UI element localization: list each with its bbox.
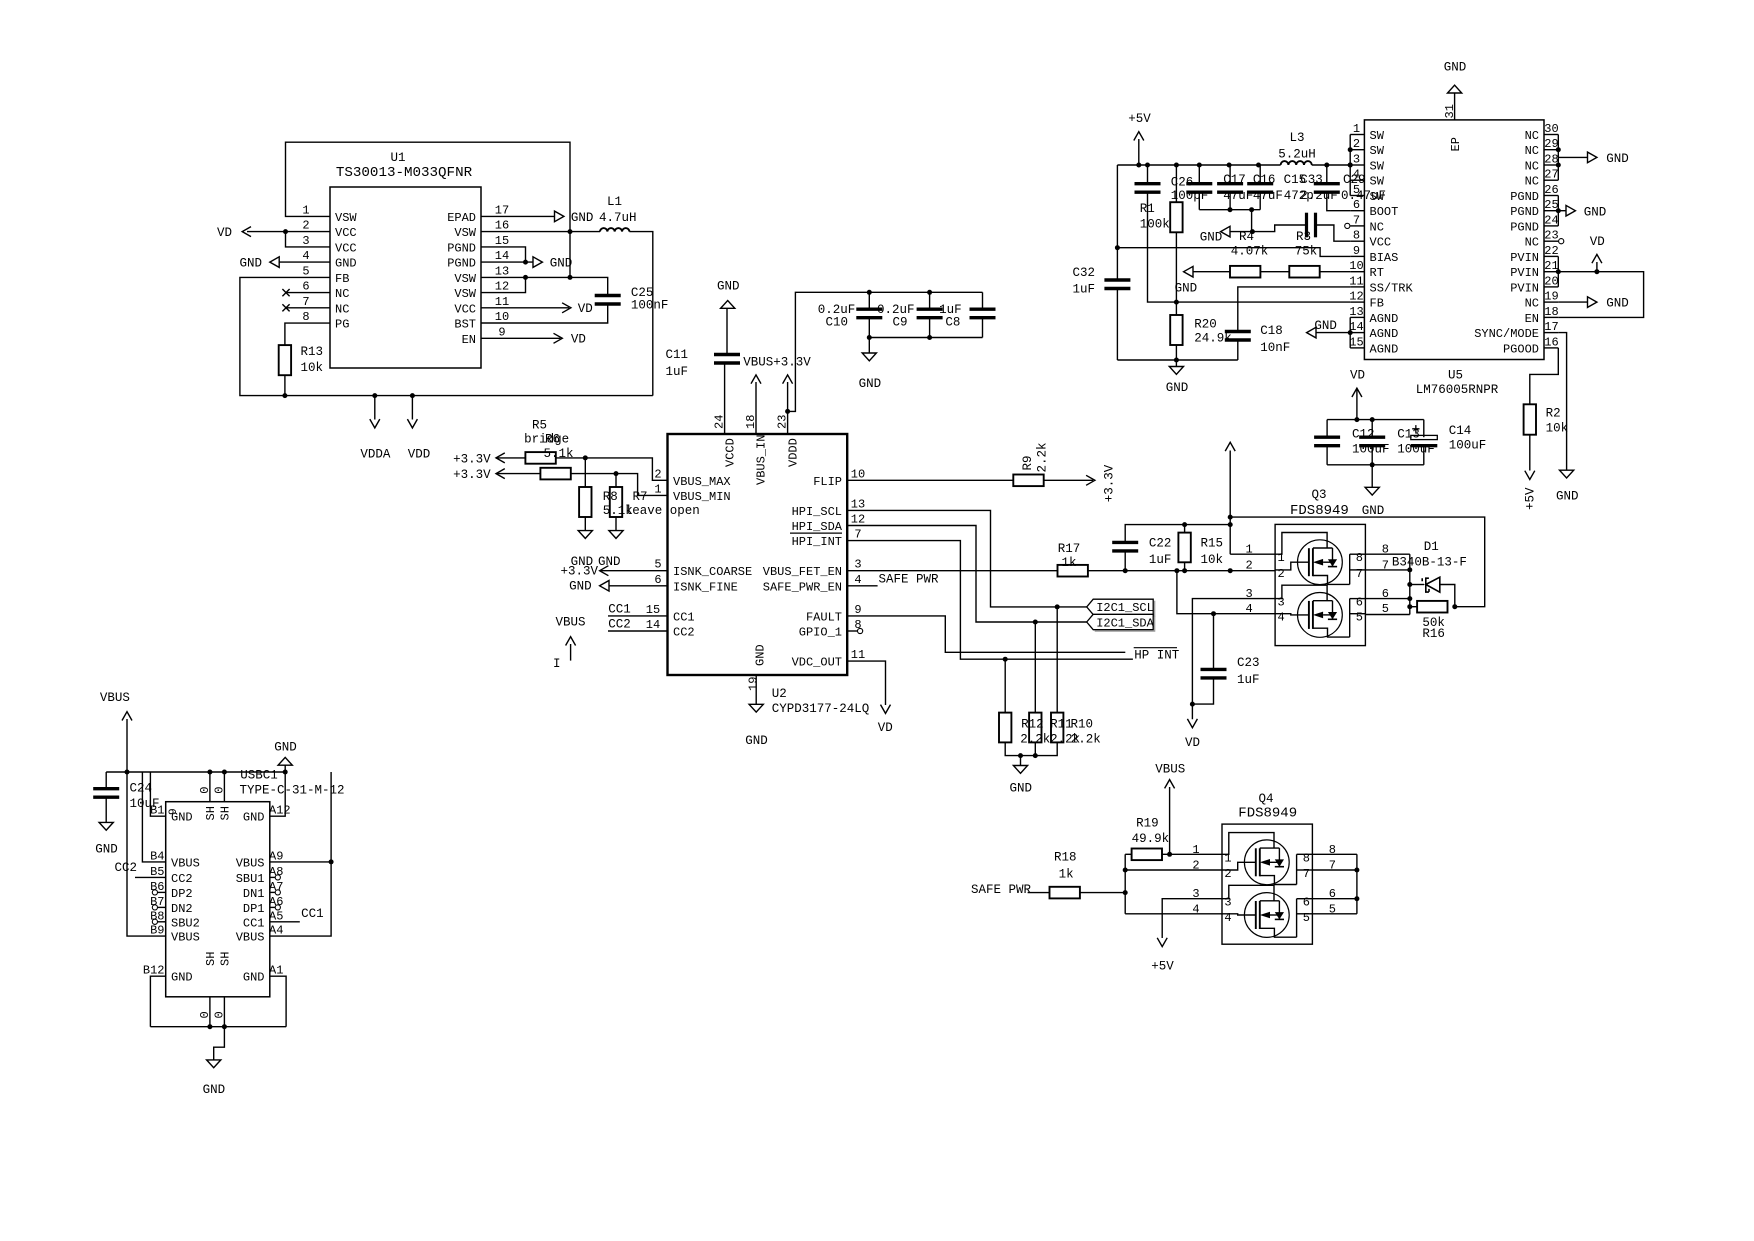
wire U5 pin 28 stub	[1544, 164, 1558, 166]
wire R15 bottom	[1184, 562, 1186, 570]
wire A12 gnd riser	[270, 772, 285, 816]
capacitor C10	[856, 308, 882, 311]
wire A to R16 loop	[1230, 517, 1485, 607]
wire U1 pin5 FB	[240, 277, 653, 395]
junction	[583, 455, 588, 460]
HP INT overline	[1134, 647, 1177, 649]
wire drain vert fet1	[1296, 854, 1298, 884]
wire R12 vert	[1004, 659, 1006, 712]
svg-text:GND: GND	[1444, 60, 1467, 74]
wire q3 vert up	[1229, 451, 1231, 555]
junction	[283, 229, 288, 234]
junction	[523, 260, 528, 265]
power arrow VBUS_IN	[751, 375, 761, 384]
svg-text:SW: SW	[1370, 129, 1385, 143]
wire B6 stub	[158, 891, 166, 893]
wire U1 pin15 PGND	[481, 247, 526, 262]
wire C12 top	[1326, 420, 1328, 438]
svg-text:R1: R1	[1140, 202, 1155, 216]
resistor R1	[1170, 202, 1182, 232]
wire U5 pin 3 stub	[1350, 164, 1364, 166]
svg-text:R3: R3	[1296, 230, 1311, 244]
wire R9 to +3.3V	[1044, 479, 1093, 481]
svg-text:U1: U1	[390, 151, 405, 165]
wire top tap fet1	[1260, 847, 1280, 849]
wire source route fet2	[1275, 585, 1327, 601]
svg-text:5: 5	[654, 558, 661, 572]
wire U5 pin 24 stub	[1544, 225, 1558, 227]
wire U5 pin 19 stub	[1544, 301, 1558, 303]
wire C32 bottom	[1116, 289, 1118, 361]
svg-text:GND: GND	[754, 644, 768, 666]
wire q3 pin1 entry	[1230, 553, 1275, 555]
svg-text:GND: GND	[550, 257, 573, 271]
junction	[1407, 604, 1412, 609]
svg-text:VD: VD	[878, 721, 893, 735]
wire U5 pin 29 stub	[1544, 149, 1558, 151]
wire VDD stub	[411, 396, 413, 420]
svg-text:9: 9	[854, 603, 861, 617]
ic U2 body	[668, 434, 848, 675]
wire SAFE_PWR_EN	[847, 585, 877, 587]
wire C16 bottom	[1229, 192, 1231, 210]
wire HPI_INT	[847, 541, 1133, 660]
svg-text:VBUS+3.3V: VBUS+3.3V	[743, 355, 811, 369]
wire B4 vbus riser	[142, 772, 165, 862]
wire C9 top	[929, 292, 931, 309]
svg-text:SH: SH	[219, 806, 233, 820]
wire B7 stub	[158, 906, 166, 908]
wire c12 gnd stub	[1371, 465, 1373, 488]
junction	[1003, 657, 1008, 662]
junction	[1018, 753, 1023, 758]
mosfet circle fet1	[1298, 540, 1343, 585]
wire q3 pin5	[1365, 614, 1409, 616]
wire q4 right vert	[1356, 854, 1358, 914]
wire R18 to node	[1080, 892, 1125, 894]
svg-text:SW: SW	[1370, 160, 1385, 174]
svg-text:16: 16	[495, 219, 509, 233]
wire +3.3V to R6	[496, 473, 540, 475]
resistor R17	[1058, 565, 1088, 577]
wire source exit fet2	[1313, 628, 1350, 637]
wire R7 bottom	[615, 517, 617, 531]
svg-text:1k: 1k	[1061, 556, 1076, 570]
svg-text:SW: SW	[1370, 144, 1385, 158]
svg-text:R19: R19	[1136, 817, 1159, 831]
mosfet gate bar fet1	[1255, 848, 1257, 876]
wire c12 top rail	[1327, 419, 1424, 421]
wire q3 pin3 to VD	[1192, 599, 1275, 720]
svg-text:5.2uH: 5.2uH	[1278, 148, 1316, 162]
svg-text:GND: GND	[598, 555, 621, 569]
svg-text:10nF: 10nF	[1260, 341, 1290, 355]
svg-text:C8: C8	[945, 316, 960, 330]
wire U5 pin 8 stub	[1350, 240, 1364, 242]
svg-text:1uF: 1uF	[1149, 553, 1172, 567]
wire q3 pin6	[1365, 598, 1409, 600]
svg-text:VBUS: VBUS	[556, 615, 586, 629]
svg-text:VSW: VSW	[335, 211, 357, 225]
capacitor C32	[1104, 278, 1130, 281]
svg-text:R5: R5	[532, 419, 547, 433]
wire C23 bottom	[1192, 678, 1213, 704]
svg-text:11: 11	[495, 295, 509, 309]
svg-text:5: 5	[302, 264, 309, 278]
wire R1 bottom	[1175, 232, 1177, 315]
wire RT gnd to R4	[1193, 271, 1230, 273]
wire R17 to C22 node	[1088, 570, 1275, 572]
wire U5 pin 7 stub	[1350, 225, 1364, 227]
svg-text:AGND: AGND	[1370, 312, 1399, 326]
wire +5V arrow stub	[1138, 139, 1140, 165]
svg-text:1: 1	[1277, 551, 1284, 565]
svg-text:14: 14	[495, 249, 509, 263]
wire U5 pin 14 stub	[1350, 332, 1364, 334]
svg-text:+5V: +5V	[1128, 112, 1151, 126]
no-connect GPIO_1	[858, 628, 863, 633]
svg-text:VBUS: VBUS	[236, 931, 265, 945]
svg-text:AGND: AGND	[1370, 327, 1399, 341]
svg-text:VD: VD	[571, 332, 586, 346]
junction	[1452, 604, 1457, 609]
svg-text:9: 9	[168, 808, 180, 815]
wire L1 right to loop	[629, 232, 652, 396]
power arrow VDD	[407, 419, 417, 428]
wire C10 bot	[868, 318, 870, 338]
svg-text:2: 2	[1224, 867, 1231, 881]
svg-text:GND: GND	[1584, 205, 1607, 219]
svg-text:GND: GND	[1166, 381, 1189, 395]
wire C30 to VCC	[1316, 225, 1351, 241]
junction	[1354, 896, 1359, 901]
body diode fet2	[1275, 912, 1284, 919]
wire R2 to +5V	[1529, 435, 1531, 471]
svg-text:DN2: DN2	[171, 902, 193, 916]
power arrow VD q3	[1187, 719, 1197, 728]
wire C29 to BOOT	[1327, 192, 1350, 211]
wire U5 pin 22 stub	[1544, 255, 1558, 257]
wire cap top rail	[869, 291, 982, 293]
svg-text:4: 4	[854, 573, 861, 587]
svg-text:CC2: CC2	[115, 861, 138, 875]
junction	[125, 770, 130, 775]
diode D1	[1426, 577, 1440, 592]
svg-text:+3.3V: +3.3V	[453, 453, 491, 467]
transistor body box	[1275, 524, 1365, 645]
gnd arrow U1 pin4	[270, 257, 279, 268]
gnd arrow NC19	[1588, 297, 1597, 308]
junction	[1123, 568, 1128, 573]
wire VSW down from L1 node	[569, 232, 571, 278]
svg-text:FB: FB	[335, 272, 349, 286]
wire q4 gate2	[1125, 913, 1222, 915]
source arrow fet2	[1260, 912, 1270, 919]
junction	[1136, 163, 1141, 168]
junction	[1174, 163, 1179, 168]
gnd usb bottom	[207, 1060, 221, 1068]
svg-text:GND: GND	[243, 971, 265, 985]
svg-text:VDD: VDD	[408, 448, 431, 462]
junction	[1556, 147, 1561, 152]
wire source route fet2	[1222, 885, 1274, 901]
svg-text:ISNK_COARSE: ISNK_COARSE	[673, 565, 752, 579]
svg-text:R9: R9	[1021, 455, 1035, 470]
svg-text:R6: R6	[545, 433, 560, 447]
resistor R7	[610, 487, 622, 517]
wire R11 bottom	[1034, 742, 1036, 755]
svg-text:10: 10	[495, 310, 509, 324]
power arrow VDDD	[783, 375, 793, 384]
junction	[785, 409, 790, 414]
wire drain vert fet2	[1349, 599, 1351, 638]
no-connect A6	[275, 905, 280, 910]
svg-text:4: 4	[1277, 611, 1284, 625]
wire SW rail right of L3	[1312, 164, 1351, 166]
resistor R5	[525, 452, 555, 464]
svg-text:R16: R16	[1422, 627, 1445, 641]
svg-text:EN: EN	[462, 333, 476, 347]
wire C11 top to GND	[726, 308, 728, 354]
svg-text:ISNK_FINE: ISNK_FINE	[673, 580, 738, 594]
wire U5 pin 2 stub	[1350, 149, 1364, 151]
svg-text:VDDA: VDDA	[360, 448, 391, 462]
wire drain pin b fet2	[1350, 613, 1366, 615]
junction	[1190, 702, 1195, 707]
wire gate entry fet1	[1222, 862, 1256, 870]
wire U1 pin7 nc stub	[287, 307, 330, 309]
gnd up usb	[278, 757, 292, 765]
wire U1 pin6 nc stub	[287, 292, 330, 294]
wire VSW to C25	[570, 277, 608, 295]
wire U5 pin 17 stub	[1544, 332, 1558, 334]
svg-text:VD: VD	[578, 302, 593, 316]
wire drain pin a fet2	[1297, 898, 1313, 900]
wire U2 pin19 GND	[755, 675, 757, 704]
wire R6 to node	[571, 474, 668, 496]
wire PGOOD to R2	[1530, 348, 1559, 404]
junction	[1256, 163, 1261, 168]
wire arrow tap fet2	[1323, 614, 1332, 616]
svg-text:0: 0	[212, 1011, 226, 1018]
svg-text:5.1k: 5.1k	[544, 447, 574, 461]
svg-text:R15: R15	[1201, 537, 1224, 551]
wire R8 bottom	[584, 517, 586, 531]
svg-text:USBC1: USBC1	[240, 769, 278, 783]
svg-text:VBUS: VBUS	[1155, 763, 1185, 777]
svg-text:VBUS: VBUS	[171, 931, 200, 945]
capacitor C17	[1186, 182, 1212, 185]
wire top tap fet2	[1313, 600, 1333, 602]
svg-text:10k: 10k	[1201, 553, 1224, 567]
mosfet channel bar fet1	[1312, 548, 1314, 576]
wire RT to pin10	[1320, 271, 1351, 273]
resistor R19	[1132, 849, 1162, 861]
svg-text:NC: NC	[1370, 220, 1384, 234]
svg-text:FAULT: FAULT	[806, 610, 842, 624]
svg-text:3: 3	[1277, 596, 1284, 610]
wire R7 top	[615, 474, 617, 487]
svg-text:8: 8	[302, 310, 309, 324]
resistor R3rt	[1289, 266, 1319, 278]
svg-text:VBUS_MIN: VBUS_MIN	[673, 490, 731, 504]
wire source route fet1	[1275, 533, 1327, 555]
wire VD arrow stub pvin	[1596, 262, 1598, 272]
wire SH bottom stub x210	[209, 997, 211, 1027]
wire safepwr to R18	[1028, 892, 1050, 894]
wire +3.3V to R5	[496, 457, 525, 459]
svg-text:100uF: 100uF	[1397, 443, 1435, 457]
power arrow +5V q4	[1157, 938, 1167, 947]
wire C17 top	[1198, 165, 1200, 184]
svg-text:R10: R10	[1071, 718, 1094, 732]
wire HPI_SDA	[847, 526, 1086, 623]
junction	[568, 275, 573, 280]
power arrow VD pvin	[1592, 254, 1602, 263]
svg-text:1: 1	[1224, 851, 1231, 865]
wire between RT resistors	[1260, 271, 1289, 273]
svg-text:VCC: VCC	[454, 302, 476, 316]
wire C9 bot	[929, 318, 931, 338]
wire top tap fet2	[1260, 900, 1280, 902]
svg-text:6: 6	[1303, 896, 1310, 910]
wire q4 pin8	[1312, 853, 1357, 855]
svg-text:VBUS_IN: VBUS_IN	[755, 435, 769, 485]
svg-text:GPIO_1: GPIO_1	[799, 626, 842, 640]
junction	[1145, 163, 1150, 168]
svg-text:R2: R2	[1546, 406, 1561, 420]
svg-text:L3: L3	[1289, 131, 1304, 145]
svg-text:15: 15	[646, 603, 660, 617]
svg-text:SYNC/MODE: SYNC/MODE	[1474, 327, 1539, 341]
svg-text:SW: SW	[1370, 175, 1385, 189]
svg-text:2: 2	[1277, 567, 1284, 581]
wire R20 bottom	[1175, 345, 1177, 360]
svg-text:B340B-13-F: B340B-13-F	[1392, 556, 1467, 570]
capacitor C9	[917, 308, 943, 311]
svg-text:100k: 100k	[1140, 218, 1170, 232]
svg-text:10: 10	[851, 467, 865, 481]
global label arrow +3.3V r6	[496, 469, 505, 479]
junction	[1115, 245, 1120, 250]
wire drain pin a fet2	[1350, 598, 1366, 600]
svg-text:HPI_SCL: HPI_SCL	[792, 505, 842, 519]
wire FLIP to R9	[847, 479, 1013, 481]
gnd caps block	[862, 353, 876, 361]
wire R19 to q4 pin1	[1162, 853, 1222, 855]
global label arrow +3.3V flip	[1086, 475, 1095, 485]
junction	[1227, 163, 1232, 168]
svg-text:100uF: 100uF	[1449, 439, 1487, 453]
svg-text:VBUS: VBUS	[171, 856, 200, 870]
svg-text:R12: R12	[1021, 718, 1044, 732]
wire U5 pin 25 stub	[1544, 210, 1558, 212]
wire R4node	[1230, 225, 1307, 232]
svg-text:6: 6	[654, 573, 661, 587]
wire C14 top	[1423, 420, 1425, 438]
svg-text:VSW: VSW	[454, 272, 476, 286]
wire A1 gnd	[270, 976, 286, 1026]
svg-text:CC1: CC1	[301, 907, 324, 921]
mosfet gate bar fet1	[1308, 548, 1310, 576]
svg-text:I: I	[553, 657, 561, 671]
svg-text:VD: VD	[1590, 235, 1605, 249]
svg-text:VDC_OUT: VDC_OUT	[792, 656, 842, 670]
wire C13 bot	[1371, 446, 1373, 465]
wire U1 pin1 VSW loop	[286, 142, 571, 231]
junction	[1348, 330, 1353, 335]
wire B9 vbus	[127, 772, 166, 936]
svg-text:3: 3	[854, 558, 861, 572]
mosfet channel bar fet1	[1259, 848, 1261, 876]
svg-text:12: 12	[495, 280, 509, 294]
wire C15 top	[1259, 165, 1261, 184]
wire ISNK_COARSE	[601, 570, 668, 572]
body diode fet1	[1275, 859, 1284, 866]
wire gnd rail r20	[1117, 359, 1237, 361]
svg-text:VCCD: VCCD	[723, 438, 737, 467]
wire gate entry fet2	[1275, 614, 1309, 615]
wire R8 top	[584, 458, 586, 487]
wire source exit fet2	[1260, 928, 1297, 937]
gnd c12 block	[1365, 487, 1379, 495]
mosfet circle fet2	[1298, 593, 1343, 638]
svg-text:AGND: AGND	[1370, 342, 1399, 356]
svg-text:VBUS: VBUS	[236, 856, 265, 870]
svg-text:LM76005RNPR: LM76005RNPR	[1416, 383, 1499, 397]
svg-text:GND: GND	[859, 377, 882, 391]
svg-text:PVIN: PVIN	[1510, 251, 1539, 265]
svg-text:VBUS_MAX: VBUS_MAX	[673, 475, 731, 489]
wire gate entry fet2	[1222, 914, 1256, 915]
svg-text:GND: GND	[571, 211, 594, 225]
wire U5 pin 20 stub	[1544, 286, 1558, 288]
junction	[867, 290, 872, 295]
svg-text:BIAS: BIAS	[1370, 251, 1399, 265]
wire q3 pin7	[1365, 569, 1409, 571]
wire U1 pin4 GND	[279, 261, 330, 263]
svg-text:VSW: VSW	[454, 226, 476, 240]
wire C14 bot	[1423, 446, 1425, 465]
svg-text:GND: GND	[239, 257, 262, 271]
junction	[1370, 462, 1375, 467]
wire R15 top	[1184, 525, 1186, 533]
wire C25 bottom to BST	[481, 304, 608, 323]
wire U5 pin 12 stub	[1350, 301, 1364, 303]
wire A5 CC1	[270, 921, 300, 923]
no-connect B8	[152, 919, 157, 924]
wire U5 pin 15 stub	[1350, 347, 1364, 349]
svg-text:GND: GND	[335, 257, 357, 271]
wire VBUS arrow q4	[1169, 787, 1171, 854]
svg-text:49.9k: 49.9k	[1132, 832, 1170, 846]
wire gnd stub R10-12	[1020, 756, 1022, 766]
junction	[1228, 522, 1233, 527]
svg-text:PVIN: PVIN	[1510, 266, 1539, 280]
junction	[222, 770, 227, 775]
junction	[1348, 163, 1353, 168]
junction	[1407, 582, 1412, 587]
junction	[1556, 163, 1561, 168]
junction	[1174, 358, 1179, 363]
svg-text:D1: D1	[1424, 540, 1439, 554]
power arrow q3 node	[1225, 442, 1235, 451]
svg-text:VCC: VCC	[335, 241, 357, 255]
junction	[1250, 229, 1255, 234]
svg-text:C32: C32	[1072, 266, 1095, 280]
svg-text:0.47uF: 0.47uF	[1341, 189, 1386, 203]
gnd arrow RT	[1184, 266, 1193, 277]
